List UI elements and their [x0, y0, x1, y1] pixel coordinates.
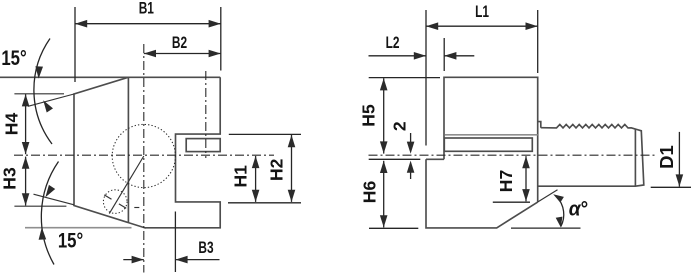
dimension B1: [75, 23, 221, 25]
svg-text:B2: B2: [172, 34, 187, 53]
groove top line: [445, 134, 538, 136]
left view body outline: [74, 77, 220, 228]
dimension L2: [369, 55, 427, 57]
svg-text:15°: 15°: [58, 229, 83, 252]
svg-text:B1: B1: [139, 0, 154, 18]
H3 bottom extension line: [14, 205, 66, 207]
alpha angle arc: [557, 197, 564, 227]
right view body outline: [426, 77, 538, 228]
right view slot rectangle: [444, 138, 532, 151]
alpha reference line: [511, 227, 581, 229]
svg-text:2: 2: [390, 121, 410, 131]
bottom angle reference line: [25, 227, 132, 229]
pitch circle (dotted): [112, 124, 175, 187]
clamp circle center ticks: [104, 195, 111, 199]
dimension H7: [525, 156, 527, 201]
svg-text:15°: 15°: [1, 47, 26, 70]
extension line H1/H2 bottom: [228, 202, 301, 204]
svg-text:H5: H5: [359, 104, 379, 127]
dimension H6: [383, 161, 385, 228]
diagonal line: [109, 156, 144, 214]
extension line H5 top: [369, 77, 440, 79]
top angle arc: [34, 39, 52, 145]
extension line B1 left: [74, 7, 76, 82]
dimension L1: [426, 25, 538, 27]
top angle arrows: [35, 66, 43, 78]
extension line L left: [425, 10, 427, 146]
dimension H2: [291, 135, 293, 202]
dimension B3: [123, 259, 144, 261]
dimension D1: [678, 132, 680, 187]
svg-text:B3: B3: [198, 239, 213, 258]
alpha angle arrows: [553, 194, 564, 202]
top chamfer extension line: [28, 94, 74, 106]
extension line L2 right: [443, 38, 445, 71]
left view inner vertical edge: [127, 77, 129, 222]
bottom angle arc: [41, 162, 58, 265]
top reference line: [0, 76, 128, 78]
dimension 2: [410, 133, 412, 142]
svg-text:H2: H2: [267, 158, 287, 181]
center line horizontal (left view): [14, 154, 274, 156]
chamfer extension line: [538, 190, 558, 202]
svg-text:H4: H4: [1, 113, 21, 136]
extension line H6 bottom: [369, 227, 418, 229]
svg-text:H1: H1: [231, 165, 251, 188]
svg-text:L1: L1: [475, 3, 489, 22]
center line of slot: [205, 71, 207, 158]
left view slot rectangle: [186, 139, 220, 152]
shank end edge: [634, 129, 636, 186]
extension line H2 top: [229, 133, 301, 135]
bottom angle arrows: [45, 185, 55, 197]
shank step notch: [538, 122, 541, 128]
svg-text:H3: H3: [0, 167, 19, 190]
shank outline with thread: [538, 124, 644, 186]
extension line support face: [369, 158, 421, 160]
H4 top extension line: [14, 93, 64, 95]
center line horizontal (right view): [369, 154, 655, 156]
extension line L1 right: [537, 10, 539, 73]
extension line D1 bottom: [651, 186, 691, 188]
bottom chamfer extension line: [34, 194, 75, 205]
svg-text:H6: H6: [360, 181, 380, 204]
dimension H3: [25, 157, 27, 206]
svg-text:H7: H7: [496, 170, 516, 192]
extension line B1/B2 right: [220, 7, 222, 71]
dimension B2: [144, 53, 221, 55]
center line vertical (left view): [143, 44, 145, 273]
dimension H5: [383, 78, 385, 153]
dimension H4: [25, 94, 27, 154]
svg-text:L2: L2: [386, 34, 400, 53]
extension line B3: [174, 212, 176, 273]
svg-text:α°: α°: [569, 198, 588, 221]
svg-text:D1: D1: [656, 145, 677, 169]
extension line H7 bottom: [493, 201, 530, 203]
clamp circle (dotted): [103, 190, 127, 214]
dimension H1: [255, 156, 257, 202]
